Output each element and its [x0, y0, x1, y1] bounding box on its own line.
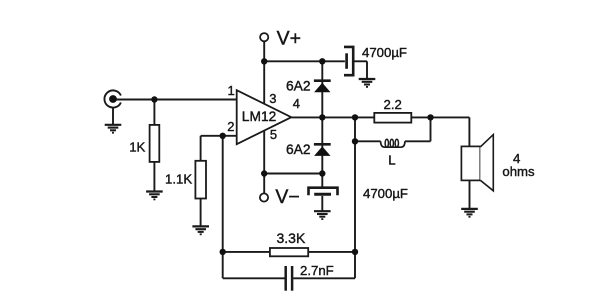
svg-text:V+: V+ — [277, 28, 301, 50]
svg-text:2.7nF: 2.7nF — [300, 263, 334, 278]
svg-text:V−: V− — [275, 186, 299, 208]
svg-text:LM12: LM12 — [242, 109, 277, 124]
svg-text:4700µF: 4700µF — [362, 45, 407, 60]
svg-text:6A2: 6A2 — [286, 142, 311, 157]
svg-text:6A2: 6A2 — [286, 79, 311, 94]
svg-text:L: L — [388, 152, 395, 167]
svg-text:1K: 1K — [129, 139, 145, 154]
svg-text:1: 1 — [228, 83, 235, 98]
svg-text:2.2: 2.2 — [384, 97, 402, 112]
svg-text:1.1K: 1.1K — [165, 172, 192, 187]
svg-text:3: 3 — [269, 91, 276, 106]
svg-text:2: 2 — [227, 119, 234, 134]
svg-text:3.3K: 3.3K — [277, 230, 306, 246]
svg-text:5: 5 — [270, 127, 277, 142]
svg-text:ohms: ohms — [502, 164, 535, 179]
svg-text:4700µF: 4700µF — [363, 186, 408, 201]
svg-text:4: 4 — [293, 96, 300, 111]
